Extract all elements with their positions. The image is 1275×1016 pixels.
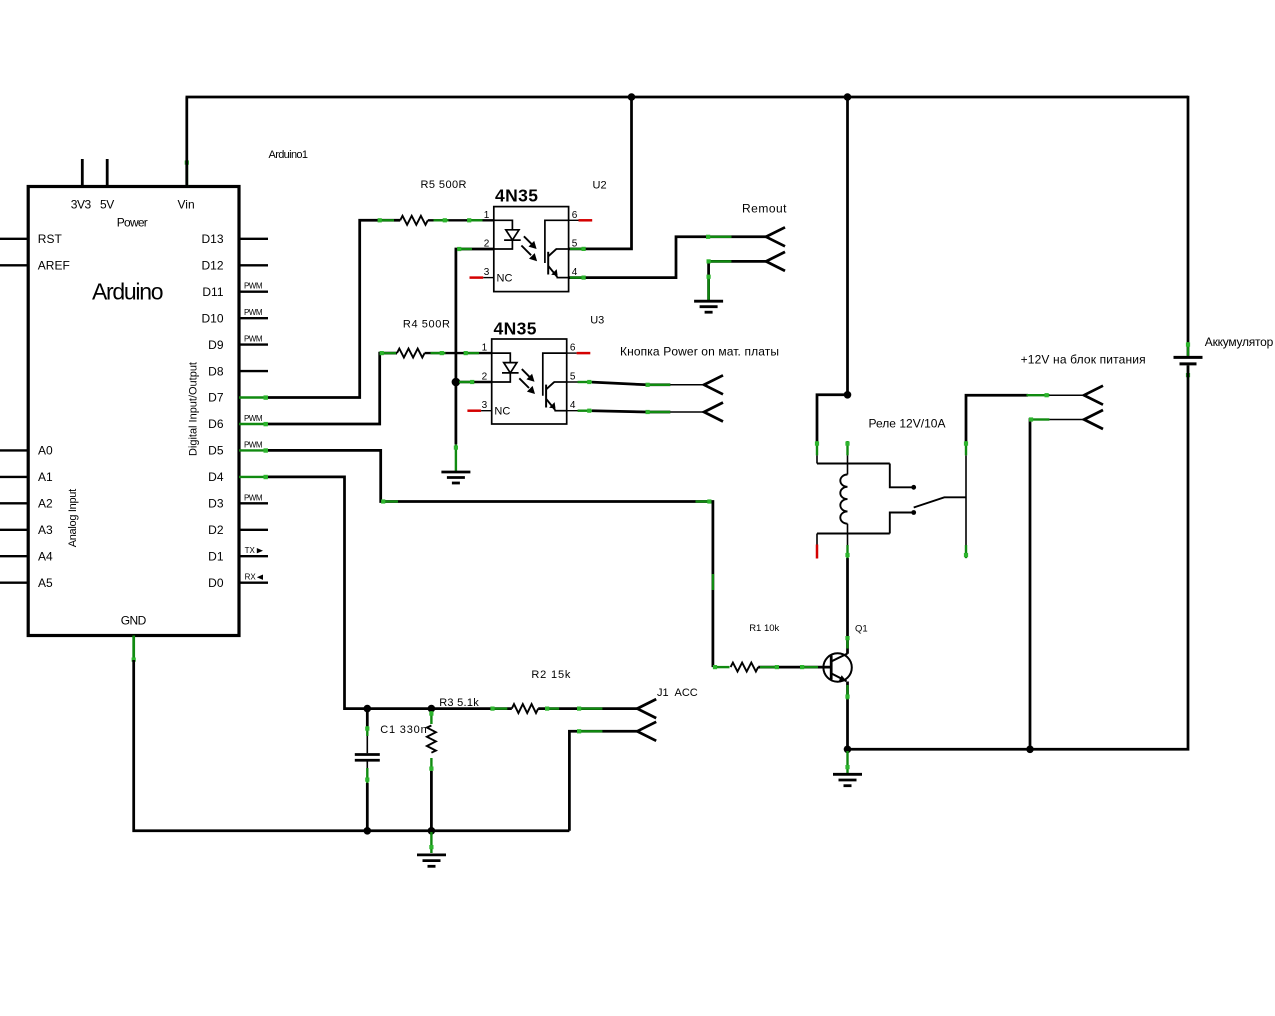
svg-text:D5: D5 <box>208 444 224 458</box>
wire node to relay coil pin1 <box>817 395 848 442</box>
svg-text:D3: D3 <box>208 497 224 511</box>
svg-text:AREF: AREF <box>38 258 70 272</box>
C1 plates <box>355 753 380 756</box>
svg-text:D0: D0 <box>208 576 224 590</box>
svg-text:Кнопка Power on мат. платы: Кнопка Power on мат. платы <box>620 344 779 358</box>
relay K1 Реле 12V/10A <box>815 391 968 559</box>
ground symbol (optocoupler LEDs) <box>441 472 470 483</box>
connector J1 pin2 (female fork) <box>637 722 656 741</box>
wire junction to ground <box>846 751 848 773</box>
connector Knopka pin2 (female fork) <box>704 403 723 422</box>
wire Vin to top rail <box>185 97 188 187</box>
svg-text:NC: NC <box>494 406 510 418</box>
connector +12V pin1 (female fork) <box>1084 386 1103 405</box>
svg-text:D4: D4 <box>208 470 224 484</box>
wire D5 to R1 riser <box>268 450 713 667</box>
resistor R2 15k <box>437 669 637 713</box>
svg-text:1: 1 <box>482 343 488 354</box>
relay coil pin (bottom) green mark <box>846 545 848 559</box>
junction top rail / relay drop <box>844 93 852 101</box>
junction U3 pin2 node <box>452 378 461 387</box>
relay coil wire with green pin mark <box>846 441 848 455</box>
svg-text:PWM: PWM <box>244 414 263 423</box>
pins A0-A5 stubs <box>0 449 28 451</box>
svg-text:NC: NC <box>497 272 513 284</box>
svg-text:3: 3 <box>482 400 488 411</box>
battery green pin marks <box>1187 342 1189 356</box>
wire Remout pin2 to ground <box>709 261 766 300</box>
relay common pin lead <box>965 456 967 559</box>
wire Arduino GND to bottom rail <box>134 660 570 831</box>
wire U2 pin4 to Remout pin1 <box>569 237 766 278</box>
svg-text:D8: D8 <box>208 364 224 378</box>
svg-text:+12V на блок питания: +12V на блок питания <box>1021 352 1146 366</box>
svg-text:PWM: PWM <box>244 493 263 502</box>
U3 internal LED <box>492 353 511 363</box>
relay coil pin2 unconnected (red) <box>816 534 818 545</box>
C1 bottom lead <box>366 761 368 770</box>
svg-text:D1: D1 <box>208 549 224 563</box>
optocoupler U3 4N35 <box>467 315 604 425</box>
svg-text:A3: A3 <box>38 523 53 537</box>
wire drop to relay coil <box>846 97 849 395</box>
svg-text:2: 2 <box>482 372 488 383</box>
svg-text:A1: A1 <box>38 470 53 484</box>
resistor R4 500R <box>397 349 425 358</box>
R3 bottom lead <box>430 758 432 771</box>
Arduino board Arduino1 <box>0 149 308 662</box>
wire junction to U3 pin2 <box>456 381 492 383</box>
U2 light arrows <box>524 236 533 245</box>
connector Remout pin1 (female fork) <box>766 227 785 246</box>
relay fixed contact NC <box>890 513 912 534</box>
U2 body <box>494 207 569 292</box>
svg-text:3V3: 3V3 <box>71 198 92 212</box>
svg-text:PWM: PWM <box>244 440 263 449</box>
U3 light arrows <box>522 369 531 378</box>
relay fixed contact NO <box>890 464 912 488</box>
U2 internal LED <box>494 220 513 230</box>
wire R3 node to R2 <box>437 707 512 710</box>
svg-text:Реле 12V/10A: Реле 12V/10A <box>869 416 946 430</box>
ground symbol (Q1 emitter) <box>833 774 862 785</box>
R2 zigzag <box>512 704 538 713</box>
svg-text:U2: U2 <box>593 179 607 191</box>
U3 pin5 stub <box>567 381 593 383</box>
svg-text:Analog Input: Analog Input <box>67 489 79 548</box>
svg-text:PWM: PWM <box>244 308 263 317</box>
pin AREF stub <box>0 264 28 266</box>
connector Remout pin2 (female fork) <box>766 252 785 271</box>
svg-text:4N35: 4N35 <box>495 186 538 206</box>
relay switch lever <box>914 497 966 507</box>
svg-text:A0: A0 <box>38 444 53 458</box>
junction C1 bottom / rail <box>364 827 372 835</box>
svg-text:Arduino1: Arduino1 <box>269 149 309 161</box>
svg-text:U3: U3 <box>590 315 604 327</box>
wire U2 pin2 down to U3 pin2 and ground <box>456 249 494 444</box>
svg-text:2: 2 <box>484 238 490 249</box>
connector J1 pin1 (female fork) <box>637 699 656 718</box>
svg-text:Q1: Q1 <box>855 624 868 635</box>
wire D6 to R4 <box>268 353 397 424</box>
svg-text:Arduino: Arduino <box>92 279 164 305</box>
pin D4 stub (green) <box>239 476 268 478</box>
arduino body outline <box>28 187 239 636</box>
svg-text:PWM: PWM <box>244 335 263 344</box>
svg-text:Digital Input/Output: Digital Input/Output <box>188 362 200 456</box>
svg-text:4N35: 4N35 <box>494 319 537 339</box>
svg-text:Vin: Vin <box>178 198 195 212</box>
wire R5 to U2 pin1 <box>428 219 494 221</box>
svg-text:Remout: Remout <box>742 202 787 216</box>
pin D6 stub (green) <box>239 423 268 425</box>
resistor R5 500R <box>400 216 428 225</box>
pins D13-D0 stubs <box>239 238 268 240</box>
U2 pin6 stub unconnected (red) <box>569 219 579 221</box>
svg-text:PWM: PWM <box>244 282 263 291</box>
R3 zigzag <box>427 726 436 753</box>
wire U3 pin4 to Knopka pin2 <box>592 411 670 412</box>
junction Q1 emitter / bottom rail <box>844 746 852 754</box>
svg-text:D13: D13 <box>201 232 223 246</box>
pin RST stub <box>0 238 28 240</box>
wire battery to bottom rail <box>848 365 1189 749</box>
resistor R1 10k <box>714 666 730 668</box>
svg-text:J1: J1 <box>657 687 669 699</box>
svg-text:D10: D10 <box>201 311 223 325</box>
svg-text:D6: D6 <box>208 417 224 431</box>
svg-text:Аккумулятор: Аккумулятор <box>1205 335 1274 349</box>
svg-text:5: 5 <box>572 238 578 249</box>
svg-text:D12: D12 <box>201 259 223 273</box>
svg-text:D7: D7 <box>208 391 224 405</box>
svg-text:1: 1 <box>484 210 490 221</box>
U3 pin4 stub <box>567 410 593 412</box>
svg-text:Power: Power <box>117 216 148 230</box>
wire Q1 emitter to ground rail <box>846 682 849 751</box>
junction C1 top node <box>364 705 372 713</box>
relay coil pin1 lead <box>816 455 818 463</box>
wire R2 to J1 pin1 <box>538 707 637 710</box>
wire R4 to U3 pin1 <box>425 352 492 354</box>
svg-text:R5 500R: R5 500R <box>421 179 467 191</box>
pin 5V stub <box>106 159 109 187</box>
svg-text:D2: D2 <box>208 523 224 537</box>
svg-text:5V: 5V <box>100 198 114 212</box>
wire D7 to R5 <box>268 220 400 397</box>
svg-text:A2: A2 <box>38 497 53 511</box>
pin 3V3 stub <box>81 159 84 187</box>
relay coil <box>840 475 847 524</box>
junction relay coil top node <box>844 391 852 399</box>
svg-text:6: 6 <box>570 343 576 354</box>
svg-text:D11: D11 <box>202 285 223 299</box>
wire rail to ground (below R3) <box>430 832 432 853</box>
Q1 collector diagonal <box>831 654 848 662</box>
capacitor C1 330n <box>355 709 427 831</box>
junction top rail / U2 pin5 drop <box>628 93 636 101</box>
transistor Q1 <box>823 558 867 750</box>
svg-text:A5: A5 <box>38 576 53 590</box>
svg-text:TX: TX <box>245 546 256 555</box>
pin D7 stub (green) <box>239 396 268 398</box>
U2 pin3 stub unconnected (red) <box>483 277 494 279</box>
wire green to ground (LED cathodes) <box>455 444 457 471</box>
pin D5 stub (green) <box>239 449 268 451</box>
svg-text:3: 3 <box>484 267 490 278</box>
U3 body <box>492 339 567 424</box>
junction bottom rail / +12V pin2 riser <box>1026 746 1034 754</box>
svg-text:R4 500R: R4 500R <box>403 318 450 330</box>
U3 internal phototransistor <box>543 353 567 396</box>
svg-text:GND: GND <box>121 614 147 628</box>
wire battery drop <box>1187 96 1190 356</box>
battery plate positive <box>1174 356 1203 359</box>
relay frame bottom bar <box>817 533 890 535</box>
U3 pin3 stub unconnected (red) <box>481 410 492 412</box>
wire U3 pin5 to Knopka pin1 <box>592 382 670 385</box>
wire relay common to +12V pin1 <box>966 395 1028 442</box>
svg-text:R2 15k: R2 15k <box>531 669 571 681</box>
junction R3 bottom / rail <box>428 827 436 835</box>
svg-text:5: 5 <box>570 372 576 383</box>
Q1 body circle <box>823 653 851 681</box>
relay frame top bar <box>817 463 890 465</box>
wire drop to U2 pin5 <box>569 97 632 249</box>
U3 pin6 stub unconnected (red) <box>567 352 577 354</box>
svg-text:RX: RX <box>245 573 257 582</box>
C1 top lead <box>366 709 369 728</box>
connector Knopka pin1 (female fork) <box>704 375 723 394</box>
resistor R3 5.1k <box>427 697 479 831</box>
svg-text:D9: D9 <box>208 338 224 352</box>
wire +12V pin2 to bottom rail <box>1030 420 1031 750</box>
U2 internal phototransistor <box>545 220 569 263</box>
battery plate negative <box>1180 362 1197 365</box>
pin GND stub (green) <box>132 636 135 663</box>
svg-text:A4: A4 <box>38 549 53 563</box>
svg-text:R3 5.1k: R3 5.1k <box>439 697 479 709</box>
wire J1 pin2 to bottom rail <box>569 731 637 831</box>
pin Vin stub (connected, green) <box>185 160 188 187</box>
svg-text:4: 4 <box>572 267 578 278</box>
Q1 emitter diagonal with arrow <box>831 673 847 681</box>
R3 top lead <box>430 711 432 724</box>
wire top rail Vin to battery <box>186 96 1189 99</box>
wire relay coil to Q1 collector <box>846 558 849 654</box>
Q1 base bar <box>830 656 833 680</box>
wire R1 to Q1 base <box>758 666 831 669</box>
svg-text:6: 6 <box>572 210 578 221</box>
optocoupler U2 4N35 <box>470 179 607 291</box>
svg-text:4: 4 <box>570 400 576 411</box>
svg-text:RST: RST <box>38 232 63 246</box>
ground symbol (Remout) <box>694 301 723 312</box>
battery Аккумулятор <box>1174 335 1274 378</box>
ground symbol (bottom rail) <box>417 855 446 866</box>
svg-text:R1 10k: R1 10k <box>749 623 779 634</box>
junction R3 top node <box>428 705 436 713</box>
wire D4 down to C1 node <box>268 477 367 709</box>
wire C1 node to R3 node <box>367 707 437 710</box>
svg-text:ACC: ACC <box>675 687 698 699</box>
svg-text:C1 330n: C1 330n <box>380 724 427 736</box>
connector +12V pin2 (female fork) <box>1084 410 1103 429</box>
